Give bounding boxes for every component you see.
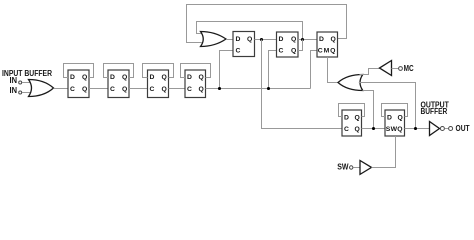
flip-flop SWQ <box>385 110 405 136</box>
wire FF5 Q to SWQ <box>362 128 386 130</box>
wire main chain FF4 Q to CMQ riser <box>206 88 311 90</box>
OR gate U1 input buffer <box>29 80 54 97</box>
svg-text:IN: IN <box>10 76 18 85</box>
flip-flop FF3 <box>148 70 169 98</box>
svg-text:Q: Q <box>331 36 336 43</box>
junction SWQ Q branch to U3 <box>414 127 417 130</box>
wire FF5 Qbar-D feedback loop <box>339 104 365 117</box>
svg-text:D: D <box>110 74 115 81</box>
OR gate U2 top feedback <box>201 32 227 47</box>
svg-text:Q: Q <box>199 74 204 81</box>
wire U6 out up to SWQ SW pin <box>372 136 396 168</box>
junction FF5 Q branch to U3 <box>372 127 375 130</box>
svg-text:Q: Q <box>122 86 127 93</box>
wire MC buffer out to U3 upper input <box>360 69 380 75</box>
wire U1 out to FF1 C <box>54 88 69 90</box>
svg-text:SWQ: SWQ <box>386 126 403 133</box>
wire IN2 to OR <box>22 92 30 94</box>
flip-flop FF1 <box>68 70 89 98</box>
svg-text:Q: Q <box>82 86 87 93</box>
buffer U6 SW input <box>360 161 372 175</box>
svg-text:C: C <box>150 86 155 93</box>
buffer U4 MC input <box>380 61 392 76</box>
svg-text:D: D <box>187 74 192 81</box>
svg-text:SW: SW <box>337 163 349 172</box>
svg-text:Q: Q <box>82 74 87 81</box>
svg-text:D: D <box>279 36 284 43</box>
flip-flop FF4 <box>185 70 206 98</box>
junction chain to FF-A <box>218 87 221 90</box>
wire SWQ Q to output buffer <box>405 128 430 130</box>
junction chain to FF-B <box>267 87 270 90</box>
wire outer feedback loop CMQ Q to OR U2 lower input <box>187 5 347 43</box>
wire bubble to OUT pad <box>445 128 448 130</box>
svg-text:Q: Q <box>162 86 167 93</box>
svg-text:CMQ: CMQ <box>318 48 337 55</box>
svg-text:C: C <box>70 86 75 93</box>
svg-text:Q: Q <box>355 126 360 133</box>
wire FF1 Qbar-D feedback loop <box>64 64 94 78</box>
wire U4 to MC pad <box>392 68 399 70</box>
wire SW pad to buffer <box>354 167 361 169</box>
svg-text:OUT: OUT <box>456 124 470 133</box>
terminal IN 2 pad <box>19 91 22 94</box>
svg-text:Q: Q <box>122 74 127 81</box>
wire FF2 Q to FF3 C <box>129 88 148 90</box>
terminal OUT pad <box>449 127 453 131</box>
buffer U5 output <box>430 122 440 136</box>
wire FF-A Q to FF-B D <box>255 39 277 41</box>
junction FF-A Q branch <box>260 38 263 41</box>
svg-text:MC: MC <box>404 64 414 73</box>
wire U3 middle input from OUT net <box>359 83 416 129</box>
svg-text:C: C <box>110 86 115 93</box>
wire FF3 Q to FF4 C <box>169 88 186 90</box>
svg-text:D: D <box>319 36 324 43</box>
wire FF-A Q down to lower chain clock <box>262 40 343 129</box>
svg-text:D: D <box>344 115 349 122</box>
wire U2 out to FF-A D <box>226 39 233 41</box>
svg-text:D: D <box>236 36 241 43</box>
svg-text:D: D <box>387 115 392 122</box>
svg-text:Q: Q <box>291 36 296 43</box>
svg-text:C: C <box>236 47 241 54</box>
svg-text:C: C <box>279 47 284 54</box>
wire inner feedback loop dot2 to OR U2 upper input <box>197 22 303 40</box>
wire riser to FF-A clock <box>220 51 234 89</box>
bubble U5 output <box>440 127 444 131</box>
wire FF-B Q to CMQ D <box>298 39 317 41</box>
wire riser to FF-B clock <box>269 51 277 89</box>
terminal IN 1 pad <box>19 81 22 84</box>
flip-flop FF2 <box>108 70 129 98</box>
wire OR U3 out up to CMQ M input <box>328 57 339 83</box>
svg-text:Q: Q <box>398 115 403 122</box>
wire dot2 jog to FF-B Qbar <box>298 40 303 51</box>
svg-text:D: D <box>70 74 75 81</box>
wire riser to CMQ clock <box>311 51 318 89</box>
wire FF1 Q to FF2 C <box>89 88 108 90</box>
flip-flop A <box>233 32 255 57</box>
wire FF2 Qbar-D feedback loop <box>104 64 134 78</box>
svg-text:Q: Q <box>355 115 360 122</box>
flip-flop FF5 <box>342 110 362 136</box>
flip-flop CMQ <box>317 32 338 57</box>
svg-text:Q: Q <box>162 74 167 81</box>
svg-text:Q: Q <box>199 86 204 93</box>
OR gate U3 reset (points left) <box>338 75 363 91</box>
terminal SW pad <box>350 166 353 169</box>
wire FF4 Qbar-D feedback loop <box>181 64 211 78</box>
flip-flop B <box>277 32 299 57</box>
svg-text:C: C <box>344 126 349 133</box>
terminal MC pad <box>399 67 403 71</box>
wire SWQ Qbar-D feedback loop <box>382 104 408 117</box>
junction FF-B Q branch <box>301 38 304 41</box>
wire IN1 to OR <box>22 82 30 84</box>
wire U3 lower input from FF5 Q net <box>363 91 374 129</box>
svg-text:BUFFER: BUFFER <box>421 107 448 116</box>
wire FF3 Qbar-D feedback loop <box>143 64 174 78</box>
svg-text:Q: Q <box>291 47 296 54</box>
svg-text:D: D <box>150 74 155 81</box>
svg-text:IN: IN <box>10 86 18 95</box>
svg-text:Q: Q <box>247 36 252 43</box>
svg-text:C: C <box>187 86 192 93</box>
